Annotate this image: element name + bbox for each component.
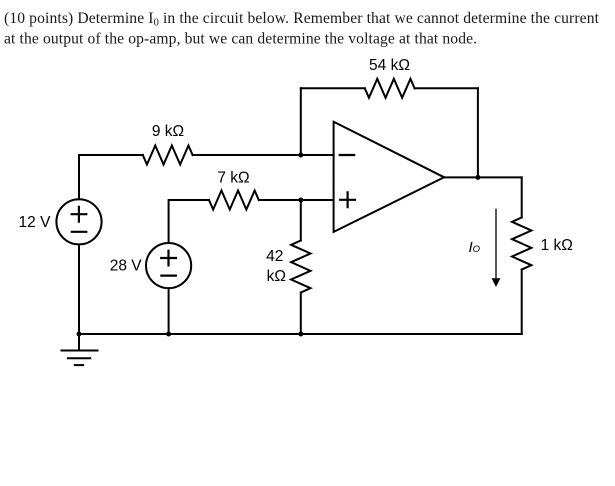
- V2 plus sign: [161, 251, 176, 266]
- wire V2 bottom lead: [168, 288, 170, 334]
- svg-text:54 kΩ: 54 kΩ: [369, 57, 410, 74]
- ground bar 2: [68, 357, 90, 359]
- wire 1k bottom lead: [521, 270, 523, 335]
- V2 minus sign: [161, 275, 176, 277]
- wire 28V branch corner and vertical: [169, 200, 209, 243]
- wire feedback vertical left: [300, 88, 302, 155]
- junction dot inverting node: [298, 153, 303, 158]
- junction dot output node: [475, 175, 480, 180]
- voltage source V1 12V circle: [56, 199, 101, 244]
- junction dot ground node: [77, 332, 82, 337]
- wire 7k to op-amp non-inverting input: [259, 199, 334, 201]
- ground stub: [78, 334, 80, 351]
- wire 9k to op-amp inverting input: [193, 154, 334, 156]
- wire 42k bottom lead: [300, 293, 302, 335]
- op-amp U1 triangle: [334, 122, 445, 232]
- wire output corner down to 1k: [521, 177, 523, 217]
- current arrow Io: [492, 209, 501, 287]
- voltage source V2 28V circle: [146, 243, 191, 288]
- svg-text:12 V: 12 V: [19, 214, 52, 231]
- wire V1 bottom lead: [78, 245, 80, 335]
- svg-text:7 kΩ: 7 kΩ: [217, 169, 249, 186]
- ground bar 1: [62, 350, 98, 352]
- op-amp minus symbol: [340, 154, 355, 156]
- junction dot non-inverting node: [298, 198, 303, 203]
- svg-text:28 V: 28 V: [110, 258, 143, 275]
- wire feedback top right segment: [415, 87, 478, 89]
- wire feedback vertical right down to output: [477, 88, 479, 177]
- ground bar 3: [75, 364, 83, 366]
- junction dot V2 bottom: [166, 332, 171, 337]
- V1 minus sign: [72, 231, 87, 233]
- wire left to R 9k: [79, 154, 143, 156]
- resistor R 7k zigzag: [209, 191, 259, 210]
- svg-text:(10 points) Determine I0 in th: (10 points) Determine I0 in the circuit …: [4, 10, 600, 29]
- wire bottom rail: [79, 333, 522, 335]
- svg-text:kΩ: kΩ: [267, 268, 286, 285]
- op-amp plus symbol: [340, 192, 355, 207]
- V1 plus sign: [72, 207, 87, 222]
- wire 42k top lead: [300, 200, 302, 241]
- wire feedback top left segment: [301, 87, 365, 89]
- resistor R 9k zigzag: [143, 146, 193, 165]
- svg-text:42: 42: [266, 248, 283, 265]
- svg-text:at the output of the op-amp, b: at the output of the op-amp, but we can …: [4, 31, 477, 48]
- wire V1 top lead: [78, 155, 80, 199]
- resistor R 42k zigzag vertical: [291, 241, 310, 293]
- svg-text:1 kΩ: 1 kΩ: [541, 237, 573, 254]
- junction dot 42k bottom: [298, 332, 303, 337]
- resistor R 54k zigzag: [365, 79, 415, 98]
- svg-text:9 kΩ: 9 kΩ: [152, 123, 184, 140]
- resistor R 1k zigzag vertical: [512, 218, 531, 270]
- wire op-amp output: [444, 176, 522, 178]
